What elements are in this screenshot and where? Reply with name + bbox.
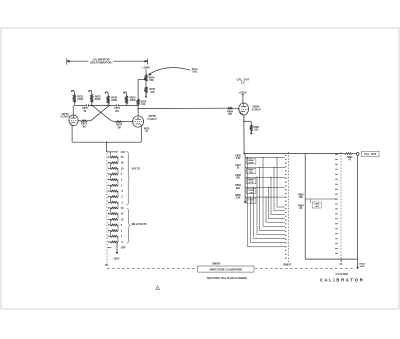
resistor R878: [137, 99, 140, 105]
svg-text:470: 470: [228, 113, 233, 116]
tap contact 10: [108, 219, 109, 220]
wire: +100V feed: [145, 69, 147, 74]
switch wafer 1F dashed: [340, 152, 342, 262]
resistor R899: [345, 153, 353, 155]
component box C889: [246, 188, 256, 193]
component box R888: [246, 178, 256, 183]
wire: left grid lead: [87, 120, 90, 122]
tap contact 50: [108, 207, 109, 208]
svg-text:R899: R899: [347, 157, 353, 159]
tap contact .5: [108, 241, 109, 242]
divider resistor R880P: [111, 241, 119, 243]
wire: +225V to plate: [242, 95, 244, 103]
svg-text:C A L I B R A T O R: C A L I B R A T O R: [320, 278, 363, 283]
svg-text:VOLTS: VOLTS: [132, 167, 141, 171]
svg-text:150K: 150K: [130, 99, 136, 102]
tap contact 2: [108, 179, 109, 180]
node: cathode rail junction: [106, 141, 108, 143]
svg-text:150K: 150K: [77, 98, 83, 101]
resistor R877: [145, 87, 148, 93]
tap contact .2: [108, 196, 109, 197]
switch wafer 2F contacts: [285, 155, 286, 156]
node: square-wave takeoff: [137, 108, 139, 110]
svg-text:10K: 10K: [254, 130, 259, 132]
divider resistor R880A: [111, 156, 119, 158]
wire: branch to R885: [244, 120, 251, 122]
svg-text:100: 100: [121, 151, 126, 154]
tap contact 5: [108, 173, 109, 174]
divider resistor R880C: [111, 167, 119, 169]
component box R887: [246, 168, 256, 173]
node: right coupling junction: [109, 105, 111, 107]
svg-text:R885: R885: [254, 127, 260, 129]
svg-text:½12AU7: ½12AU7: [251, 107, 261, 111]
divider chain joins: [110, 152, 112, 157]
bracket VOLTS: [127, 152, 130, 205]
tap contact 1: [108, 236, 109, 237]
wire: takeoff to cathode follower grid: [138, 107, 227, 109]
wire: output bus vertical: [304, 154, 306, 260]
wire: load tap: [305, 198, 335, 200]
wire: rail mid: [88, 104, 108, 106]
node: cathode branch: [243, 121, 245, 123]
resistor R871: [73, 94, 76, 102]
svg-text:ADJ.: ADJ.: [192, 71, 198, 74]
ganged switch coupling dashed line: [107, 268, 197, 270]
tap contact 20: [108, 213, 109, 214]
svg-text:2K: 2K: [299, 208, 302, 210]
divider resistor R880D: [111, 173, 119, 175]
svg-text:4-5-56 SKR: 4-5-56 SKR: [335, 273, 348, 276]
svg-text:220K: 220K: [95, 98, 101, 101]
divider resistor R880B: [111, 162, 119, 164]
wire: V875A plate lead: [72, 105, 74, 114]
supply hook above R875: [124, 92, 127, 96]
supply hook above R874: [106, 92, 109, 96]
wire: attenuator node 2: [245, 166, 285, 168]
component box R886: [246, 159, 256, 164]
wire: V875A cathode to rail: [71, 126, 73, 143]
node: left coupling junction: [91, 105, 93, 107]
capacitor C893 branch: [310, 199, 312, 203]
resistor R874: [107, 96, 110, 104]
tap contact 10: [108, 168, 109, 169]
svg-text:620K: 620K: [248, 162, 254, 164]
potentiometer R876: [145, 75, 148, 82]
svg-text:+225V: +225V: [239, 90, 247, 94]
tube V875A: [69, 115, 78, 126]
svg-text:AMPLITUDE CALIBRATOR: AMPLITUDE CALIBRATOR: [209, 267, 242, 271]
svg-text:R879: R879: [144, 128, 150, 130]
component box C890: [246, 198, 256, 203]
divider resistor R880M: [111, 224, 119, 226]
callout: calibrator multivibrator bracket: [66, 59, 68, 65]
callout curve: FULL ADJ: [149, 68, 190, 75]
svg-text:+100V: +100V: [142, 65, 150, 69]
resistor R879 grid: [116, 121, 122, 123]
svg-text:MILLIVOLTS: MILLIVOLTS: [132, 222, 147, 226]
divider resistor R880L: [111, 218, 119, 220]
tap contact OFF: [108, 247, 109, 248]
svg-text:GND: GND: [359, 266, 364, 268]
svg-text:1R: 1R: [105, 264, 108, 267]
divider resistor R880O: [111, 235, 119, 237]
capacitor C874: [115, 104, 117, 107]
wire: right plate line: [137, 80, 139, 100]
svg-text:OFF: OFF: [121, 247, 126, 250]
wire: attenuator feed vertical: [244, 154, 246, 202]
divider resistor R880N: [111, 230, 119, 232]
divider resistor R880F: [111, 184, 119, 186]
bracket MILLIVOLTS: [127, 209, 130, 243]
svg-text:62K: 62K: [249, 172, 253, 174]
resistor R885: [250, 125, 253, 131]
wire: rail junction down to divider: [106, 142, 108, 152]
wire: cathode down: [243, 115, 245, 122]
svg-text:50K: 50K: [149, 79, 154, 82]
resistor R873 grid: [81, 120, 87, 122]
switch name box AMPLITUDE CALIBRATOR: [198, 266, 255, 272]
svg-text:C.F.: C.F.: [241, 81, 246, 85]
wafer tick 1F: [340, 259, 342, 262]
wire: cross-coupling diagonal left-to-right: [92, 105, 111, 120]
divider resistor R880J: [111, 207, 119, 209]
switch wafer 2F dashed: [288, 152, 290, 262]
svg-text:82K: 82K: [236, 188, 241, 190]
svg-text:SECTIONS 1R & 2F (R6 GANGED): SECTIONS 1R & 2F (R6 GANGED): [207, 277, 247, 280]
resistor R875: [125, 96, 128, 104]
svg-text:½12AU7: ½12AU7: [60, 115, 70, 119]
wire: R876 wiper: [138, 79, 144, 81]
svg-text:SW870: SW870: [212, 262, 221, 265]
connector CAL OUT: [356, 153, 359, 156]
svg-text:½12AU7: ½12AU7: [147, 117, 157, 121]
svg-text:6.2K: 6.2K: [249, 182, 254, 184]
tap contact 20: [108, 162, 109, 163]
revision delta: [156, 286, 160, 289]
supply hook above R871: [72, 90, 75, 94]
resistor R884: [227, 107, 233, 109]
tap contact .5: [108, 190, 109, 191]
divider resistor R880E: [111, 179, 119, 181]
divider resistor R880I: [111, 201, 119, 203]
svg-text:-150V: -150V: [113, 256, 120, 260]
wire: cathode rail: [72, 141, 141, 143]
tube V885A cathode follower: [239, 103, 249, 115]
wire: attenuator node 1: [245, 157, 285, 159]
wire: R878 to plate: [137, 105, 139, 116]
svg-text:8.2K: 8.2K: [236, 198, 241, 200]
wire: attenuator node 4: [245, 186, 285, 188]
svg-text:.001: .001: [115, 110, 120, 113]
tap contact 2: [108, 230, 109, 231]
wire: rail to right plate line: [118, 104, 138, 106]
switch wafer 1R dashed: [106, 151, 108, 264]
wire: cross-coupling diagonal right-to-left: [91, 105, 110, 120]
supply hook above R872: [89, 90, 92, 94]
switch wafer 1F contacts: [335, 154, 336, 155]
wire: R877 bottom arrow: [145, 93, 147, 96]
svg-text:MULTIVIBRATOR: MULTIVIBRATOR: [90, 61, 111, 65]
svg-text:10K: 10K: [141, 103, 146, 106]
svg-text:8-50: 8-50: [236, 158, 241, 160]
svg-text:10K: 10K: [299, 197, 304, 199]
wire: attenuator node 3: [245, 176, 285, 178]
svg-text:1M: 1M: [82, 125, 85, 128]
svg-text:1M: 1M: [117, 126, 120, 129]
tap contact 5: [108, 224, 109, 225]
tap contact 1: [108, 185, 109, 186]
svg-text:SW870: SW870: [283, 263, 292, 266]
svg-text:220K: 220K: [111, 99, 117, 102]
wire: rail right: [107, 104, 109, 106]
svg-text:CAL. OUT: CAL. OUT: [364, 152, 377, 156]
wire: R885 to -150V arrow: [250, 131, 252, 133]
divider resistor R880H: [111, 196, 119, 198]
divider resistor R880G: [111, 190, 119, 192]
resistor R872: [90, 94, 93, 102]
wire: right grid lead: [111, 120, 115, 123]
svg-text:R894: R894: [298, 204, 304, 207]
wire: attenuator node 5: [245, 196, 285, 198]
capacitor C873: [85, 104, 87, 107]
wire: R876 to R877: [145, 81, 147, 87]
staircase tap wires: [276, 158, 278, 208]
tap contact 50: [108, 156, 109, 157]
tube V875B: [133, 116, 144, 127]
wire: divider bottom to -150V: [116, 242, 118, 252]
tap contact .1: [108, 202, 109, 203]
wire: connector ground drop: [357, 155, 359, 259]
wire: V875B cathode to rail: [140, 127, 142, 142]
node: cathode to output line: [243, 153, 244, 154]
wire: output bottom rail: [305, 258, 357, 260]
divider resistor R880K: [111, 213, 119, 215]
wire: plate rail left: [73, 103, 75, 106]
svg-text:15K: 15K: [150, 91, 155, 94]
wire: output top line: [244, 153, 344, 155]
